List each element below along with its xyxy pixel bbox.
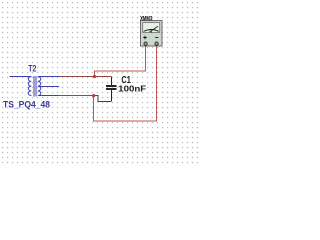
terminal plus bbox=[145, 45, 147, 47]
svg-text:T2: T2 bbox=[28, 63, 36, 74]
wire transformer top tap to node A bbox=[59, 76, 95, 78]
meter needle bbox=[150, 26, 159, 32]
secondary winding arcs bbox=[38, 77, 41, 96]
terminal minus bbox=[156, 45, 158, 47]
node A junction dot bbox=[93, 75, 96, 78]
svg-text:100nF: 100nF bbox=[118, 84, 146, 94]
wire pin lead left primary bbox=[10, 76, 32, 78]
pin lead secondary top tap bbox=[38, 76, 59, 78]
wire capacitor bottom to node B bbox=[94, 96, 112, 102]
transformer T2 bbox=[10, 76, 60, 96]
svg-text:XMM3: XMM3 bbox=[140, 16, 152, 23]
wire node A to capacitor top bbox=[95, 76, 112, 78]
capacitor C1 bbox=[106, 77, 117, 102]
plus marking bbox=[143, 36, 146, 39]
primary winding arcs bbox=[28, 77, 31, 96]
wire node B to multimeter minus bbox=[94, 46, 157, 121]
minus marking bbox=[155, 37, 158, 39]
core line 1 bbox=[33, 76, 35, 96]
meter scale arc bbox=[144, 30, 159, 32]
core line 2 bbox=[35, 76, 37, 96]
node B junction dot bbox=[92, 94, 95, 97]
wire node A to multimeter plus bbox=[95, 46, 146, 76]
pin lead secondary center tap bbox=[38, 86, 59, 88]
wire transformer bottom tap to node B bbox=[59, 95, 94, 97]
multimeter XMM3 bbox=[141, 21, 163, 47]
pin lead secondary bottom tap bbox=[38, 95, 59, 97]
svg-text:TS_PQ4_48: TS_PQ4_48 bbox=[3, 99, 50, 109]
